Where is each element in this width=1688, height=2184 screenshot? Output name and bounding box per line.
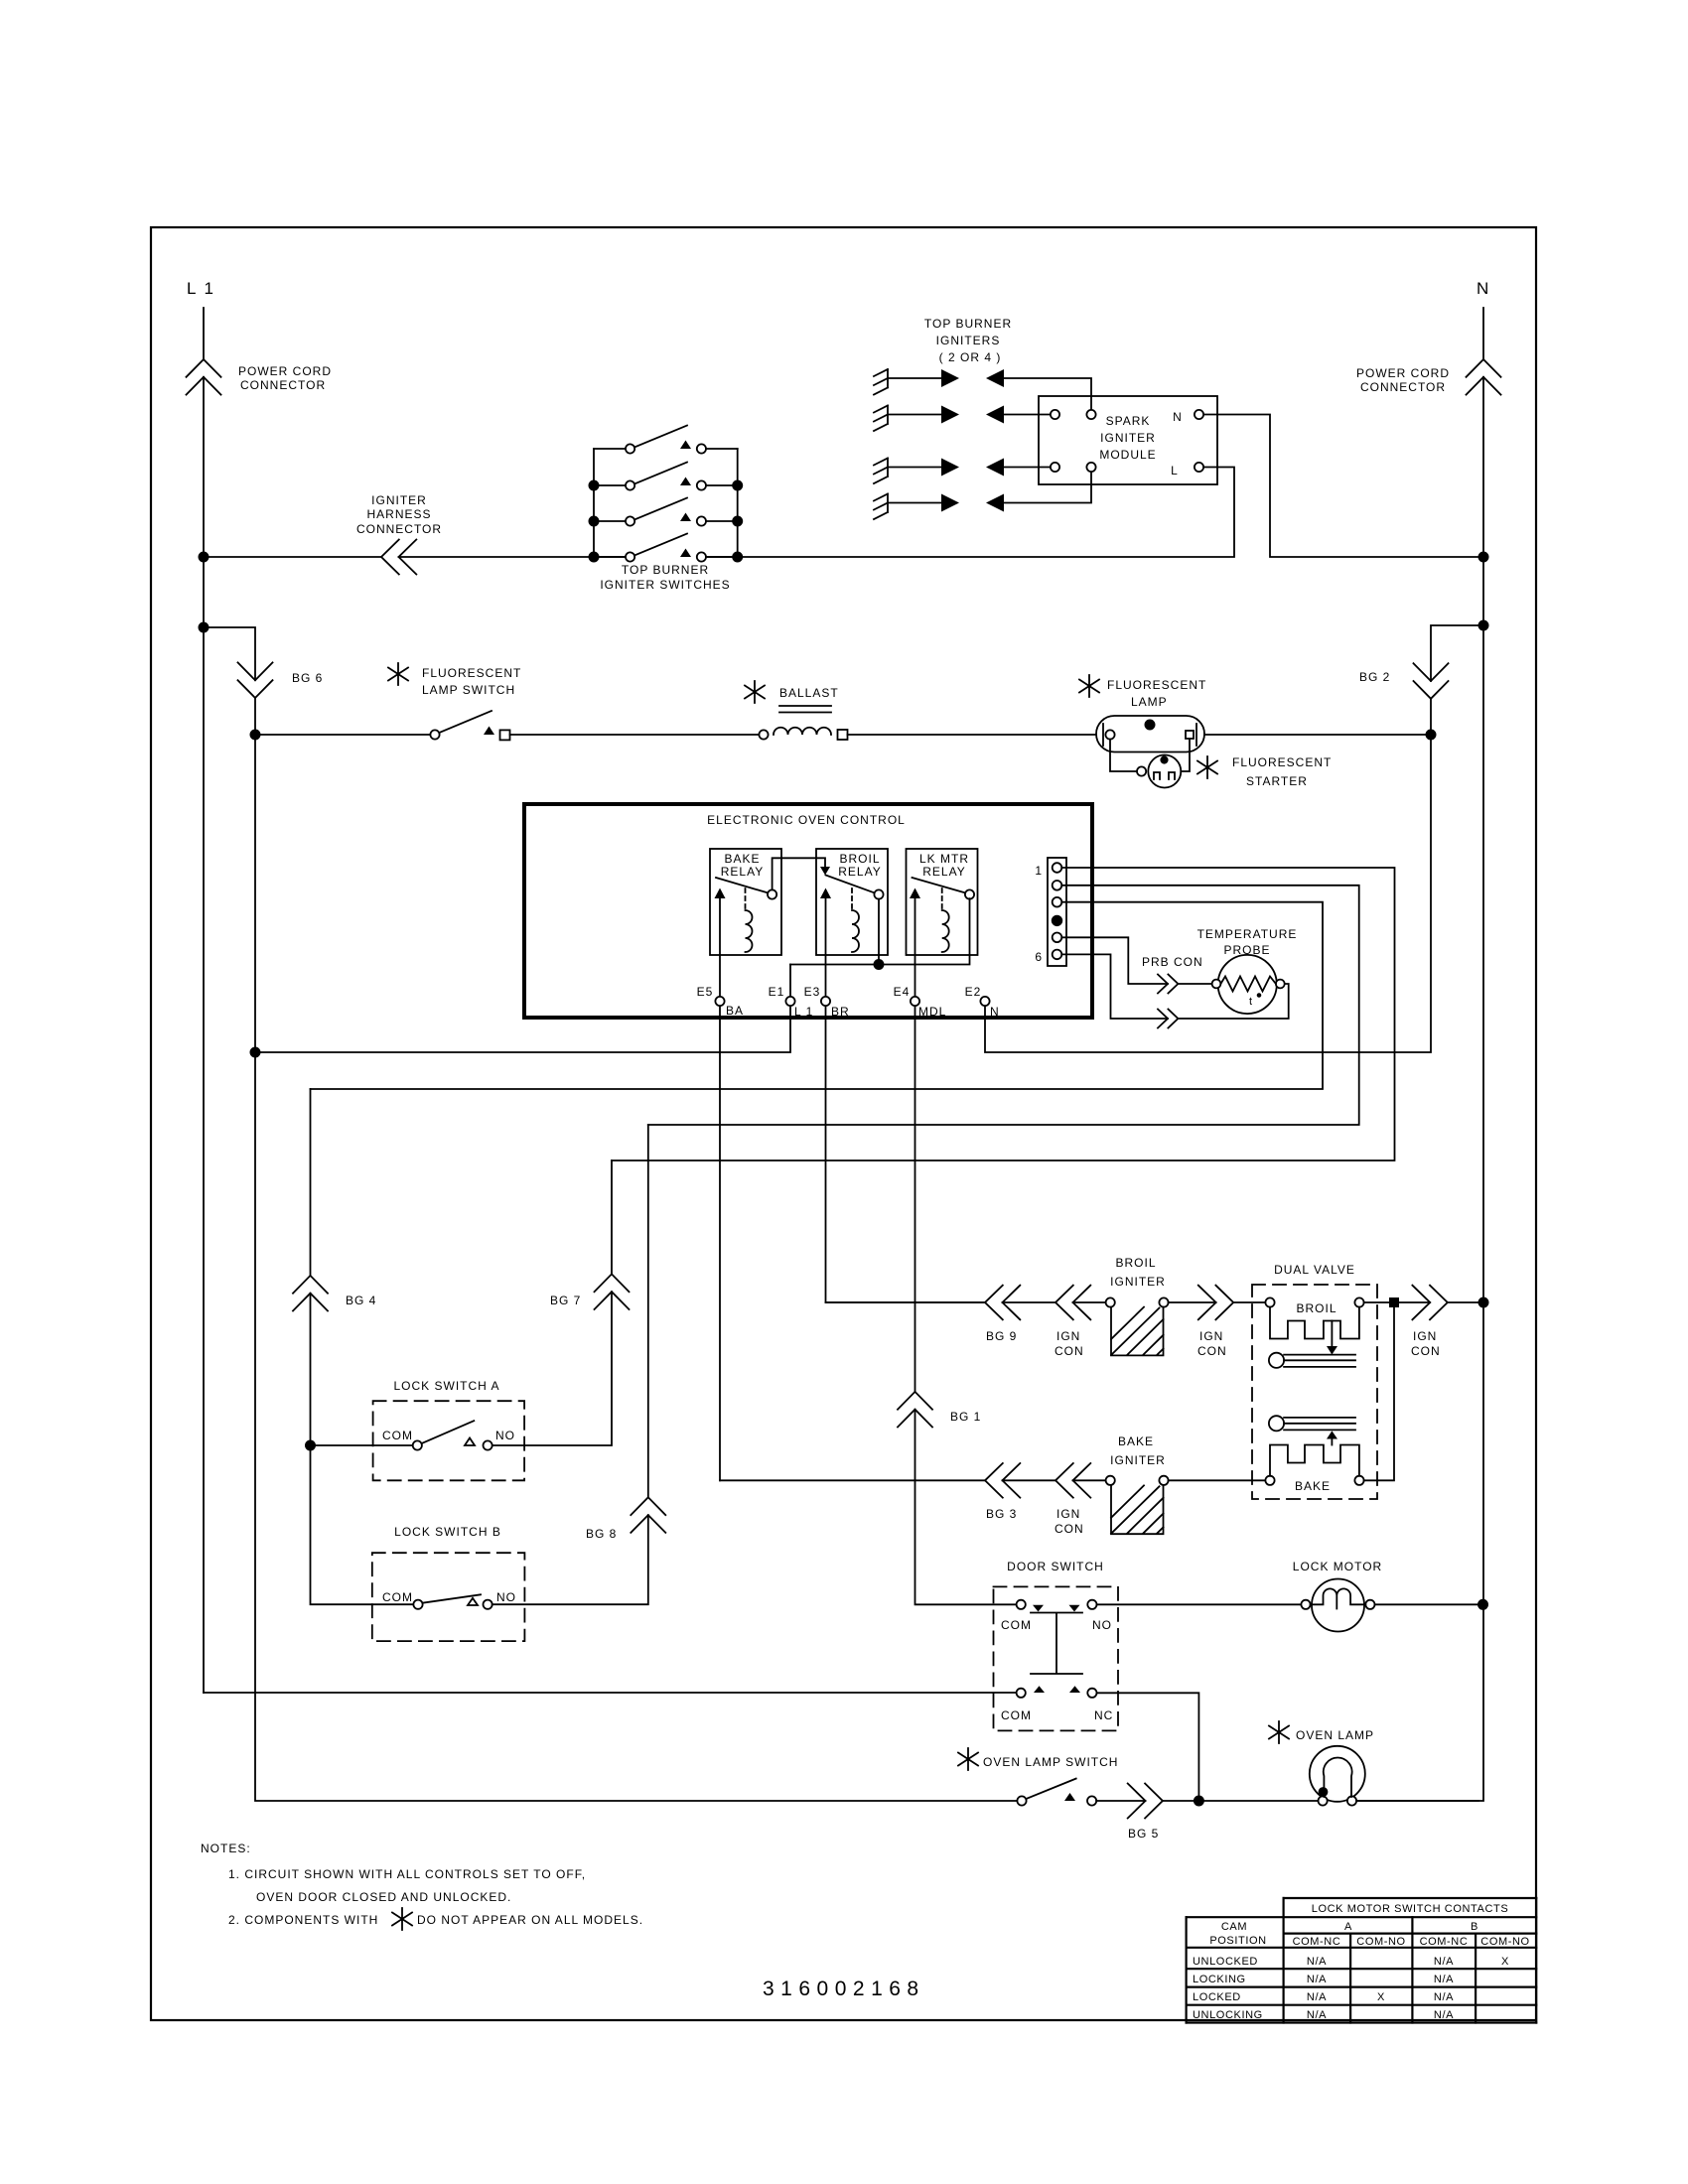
svg-text:CON: CON [1197, 1344, 1227, 1358]
svg-text:LOCK SWITCH B: LOCK SWITCH B [394, 1525, 501, 1539]
BG 1 connector chevrons [898, 1392, 932, 1428]
junction square valve outputs [1389, 1297, 1399, 1307]
spark igniter module U1 [1039, 396, 1217, 484]
svg-text:316002168: 316002168 [763, 1978, 925, 2000]
wire L1 drop [203, 308, 205, 1693]
wire BG5 to oven lamp [1163, 1800, 1319, 1802]
svg-text:LK MTR: LK MTR [919, 852, 969, 866]
junction dot switch bank [733, 552, 742, 561]
igniter harness connector chevrons [381, 540, 416, 575]
svg-text:TOP BURNER: TOP BURNER [622, 563, 709, 577]
lock switch A contacts [315, 1444, 413, 1446]
junction dot relay common [874, 960, 883, 969]
pin 3 [1053, 897, 1062, 907]
svg-text:CON: CON [1055, 1344, 1084, 1358]
svg-text:COM-NO: COM-NO [1480, 1936, 1529, 1948]
svg-text:BG 1: BG 1 [950, 1410, 981, 1424]
svg-text:LOCK SWITCH A: LOCK SWITCH A [393, 1379, 499, 1393]
svg-text:N: N [1173, 410, 1183, 424]
svg-text:N: N [1477, 279, 1490, 298]
wire to probe left pin [1178, 983, 1211, 985]
door switch actuator link [1031, 1613, 1082, 1675]
svg-text:ELECTRONIC OVEN CONTROL: ELECTRONIC OVEN CONTROL [707, 813, 906, 827]
wire BG9 to IGN CON [1003, 1301, 1056, 1303]
svg-text:E3: E3 [804, 985, 821, 999]
svg-text:L 1: L 1 [187, 279, 215, 298]
svg-text:1. CIRCUIT SHOWN WITH ALL CONT: 1. CIRCUIT SHOWN WITH ALL CONTROLS SET T… [228, 1867, 586, 1881]
door switch upper pole NO [1087, 1600, 1096, 1609]
wire bake igniter to valve [1169, 1479, 1266, 1481]
svg-text:BG 4: BG 4 [346, 1294, 376, 1307]
svg-text:BROIL: BROIL [1115, 1256, 1156, 1270]
top burner igniter electrode 1 [874, 369, 888, 395]
svg-text:6: 6 [1035, 950, 1043, 964]
svg-text:N/A: N/A [1434, 2009, 1454, 2021]
junction dot switch bank [733, 516, 742, 525]
wire L1 to BG6 branch [204, 627, 1017, 1801]
svg-text:LAMP: LAMP [1131, 695, 1168, 709]
svg-text:BROIL: BROIL [839, 852, 880, 866]
svg-text:CONNECTOR: CONNECTOR [240, 378, 326, 392]
junction dot N bus / valve return [1478, 1297, 1487, 1306]
svg-text:1: 1 [1035, 864, 1043, 878]
top burner igniter switch row 2 [594, 484, 738, 486]
wire to bake igniter [1073, 1479, 1106, 1481]
svg-text:OVEN DOOR CLOSED AND UNLOCKED.: OVEN DOOR CLOSED AND UNLOCKED. [256, 1890, 511, 1904]
fluorescent lamp switch S1 [430, 730, 439, 739]
svg-text:IGNITER: IGNITER [1110, 1275, 1166, 1289]
oven lamp DS2 [1269, 1721, 1289, 1743]
wire L1 bus [204, 556, 626, 558]
svg-text:2. COMPONENTS WITH: 2. COMPONENTS WITH [228, 1913, 378, 1927]
terminal E4 [911, 997, 919, 1006]
wire N bus BG2 branch [1431, 625, 1478, 730]
svg-text:N/A: N/A [1434, 1991, 1454, 2003]
border frame [151, 227, 1536, 2020]
wire lamp line left [255, 734, 430, 736]
pin 2 [1053, 881, 1062, 890]
wire broil igniter to IGN CON [1169, 1301, 1216, 1303]
wire switch to BG5 [1096, 1800, 1145, 1802]
terminal E1 [785, 997, 794, 1006]
svg-text:NC: NC [1094, 1708, 1113, 1722]
svg-text:BG 8: BG 8 [586, 1527, 617, 1541]
IGN CON chevrons (broil igniter in) [1055, 1286, 1090, 1320]
PRB CON chevrons (pin6 line) [1158, 1010, 1178, 1028]
top burner igniter switches bank [594, 449, 738, 557]
svg-text:COM: COM [1001, 1618, 1032, 1632]
top burner igniter electrode 4 [874, 494, 888, 520]
junction dot switch bank [589, 516, 598, 525]
wire oven lamp to N bus [1356, 1800, 1478, 1802]
svg-text:TOP BURNER: TOP BURNER [924, 317, 1012, 331]
svg-text:DUAL VALVE: DUAL VALVE [1274, 1263, 1355, 1277]
wire BG3 to IGN CON [1003, 1479, 1056, 1481]
door switch dashed enclosure [994, 1586, 1119, 1730]
svg-text:IGN: IGN [1056, 1329, 1080, 1343]
wire switch to ballast [510, 734, 760, 736]
svg-text:BROIL: BROIL [1296, 1301, 1336, 1315]
svg-text:E4: E4 [894, 985, 911, 999]
svg-text:IGNITER: IGNITER [1110, 1453, 1166, 1467]
svg-text:LOCK MOTOR: LOCK MOTOR [1293, 1560, 1382, 1573]
junction dot lock switch A feed [306, 1440, 315, 1449]
svg-text:N/A: N/A [1434, 1956, 1454, 1968]
svg-text:IGNITERS: IGNITERS [936, 334, 1001, 347]
lock motor switch contacts table [1187, 1898, 1537, 2023]
svg-text:E2: E2 [965, 985, 982, 999]
wire bake relay contact to broil relay pivot [773, 858, 825, 889]
wire bake igniter row [720, 1479, 985, 1481]
wire lock switch B NO to BG8 [492, 1125, 648, 1604]
oven lamp switch S2 [958, 1748, 978, 1770]
svg-text:POWER CORD: POWER CORD [1356, 366, 1450, 380]
lock switch B dashed enclosure [372, 1553, 525, 1641]
junction dot E1 / L1 branch [250, 1047, 259, 1056]
svg-text:IGNITER: IGNITER [371, 493, 427, 507]
svg-text:DO NOT APPEAR ON ALL MODELS.: DO NOT APPEAR ON ALL MODELS. [417, 1913, 643, 1927]
svg-text:UNLOCKED: UNLOCKED [1193, 1956, 1258, 1968]
ballast L1 [745, 681, 765, 703]
wire bus to spark module L [706, 468, 1234, 558]
wire broil relay contact down [878, 899, 880, 965]
wire pin 1 to BG7 net [612, 868, 1395, 1160]
fluorescent lamp DS1 [1079, 675, 1099, 697]
svg-text:N/A: N/A [1307, 1974, 1327, 1985]
svg-text:LAMP SWITCH: LAMP SWITCH [422, 683, 515, 697]
svg-text:E5: E5 [697, 985, 714, 999]
svg-text:BAKE: BAKE [724, 852, 760, 866]
BG 6 connector chevrons [238, 662, 273, 698]
broil valve actuator arrow [1331, 1321, 1333, 1347]
door switch lower pole COM [1017, 1689, 1026, 1698]
svg-text:CONNECTOR: CONNECTOR [1360, 380, 1446, 394]
svg-text:CON: CON [1055, 1522, 1084, 1536]
top burner igniter switch row 1 [594, 448, 738, 450]
svg-text:IGN: IGN [1056, 1507, 1080, 1521]
junction dot L1/bus [199, 552, 208, 561]
wire lock motor to N bus [1375, 1603, 1479, 1605]
svg-text:RELAY: RELAY [838, 865, 881, 879]
svg-text:LOCKING: LOCKING [1193, 1974, 1246, 1985]
svg-text:CONNECTOR: CONNECTOR [356, 522, 442, 536]
wire relay common rail (E1 to LK MTR contact) [790, 898, 970, 964]
lk mtr relay K3 [907, 849, 978, 955]
svg-text:MDL: MDL [918, 1005, 946, 1019]
wire E2 riser (N) [985, 740, 1431, 1052]
IGN CON chevrons (broil igniter out) [1198, 1286, 1233, 1320]
wire igniter row 1 to module [1004, 378, 1091, 410]
svg-text:CAM: CAM [1221, 1921, 1247, 1933]
svg-text:NO: NO [495, 1429, 515, 1442]
module pin circles [1051, 410, 1059, 419]
wire door switch NO to lock motor [1097, 1603, 1302, 1605]
svg-text:L 1: L 1 [794, 1005, 813, 1019]
wire door switch NC drop to oven lamp line [1097, 1693, 1199, 1796]
wire E1 riser [260, 965, 790, 1053]
svg-text:COM: COM [382, 1590, 413, 1604]
svg-text:UNLOCKING: UNLOCKING [1193, 2009, 1263, 2021]
svg-text:BAKE: BAKE [1295, 1479, 1331, 1493]
IGN CON chevrons (valve out) [1412, 1286, 1447, 1320]
wire E5 riser (BA) [719, 898, 721, 1480]
PRB CON chevrons (pin5 line) [1158, 975, 1178, 994]
svg-text:BA: BA [726, 1004, 744, 1018]
lock switch A dashed enclosure [373, 1401, 524, 1480]
svg-text:BAKE: BAKE [1118, 1434, 1154, 1448]
svg-text:L: L [1171, 464, 1179, 478]
svg-text:( 2 OR 4 ): ( 2 OR 4 ) [939, 350, 1002, 364]
wire E4 riser (MDL) [915, 898, 1017, 1604]
BG 7 connector chevrons [595, 1274, 630, 1309]
svg-text:BG 5: BG 5 [1128, 1827, 1159, 1841]
svg-text:PRB CON: PRB CON [1142, 955, 1203, 969]
svg-text:N/A: N/A [1307, 2009, 1327, 2021]
junction dot N bus top [1478, 552, 1487, 561]
wire to dual valve broil coil [1233, 1301, 1265, 1303]
svg-text:NO: NO [496, 1590, 516, 1604]
top burner igniter switch row 4 [594, 556, 738, 558]
junction dot switch bank [589, 480, 598, 489]
svg-text:N/A: N/A [1307, 1956, 1327, 1968]
wire pin 6 to probe return [1061, 954, 1168, 1019]
wire N drop [1356, 308, 1483, 1801]
power cord connector (N) [1467, 359, 1501, 395]
svg-text:BALLAST: BALLAST [779, 686, 839, 700]
wire igniter row 4 to module [1004, 472, 1091, 502]
svg-text:FLUORESCENT: FLUORESCENT [422, 666, 521, 680]
top burner igniter switch row 3 [594, 520, 738, 522]
svg-text:BG 9: BG 9 [986, 1329, 1017, 1343]
svg-text:COM: COM [382, 1429, 413, 1442]
svg-text:LOCKED: LOCKED [1193, 1991, 1241, 2003]
svg-text:COM-NO: COM-NO [1356, 1936, 1405, 1948]
svg-text:IGN: IGN [1413, 1329, 1437, 1343]
wire broil igniter row [826, 1301, 986, 1303]
svg-text:BG 7: BG 7 [550, 1294, 581, 1307]
top burner igniter electrode 3 [874, 459, 888, 484]
svg-text:LOCK MOTOR SWITCH CONTACTS: LOCK MOTOR SWITCH CONTACTS [1312, 1903, 1509, 1915]
svg-text:BG 2: BG 2 [1359, 670, 1390, 684]
broil burner outlet [1269, 1353, 1284, 1368]
bake burner outlet [1269, 1416, 1284, 1431]
IGN CON chevrons (bake igniter in) [1055, 1463, 1090, 1498]
top burner igniter electrode 2 [874, 406, 888, 432]
wire BG4 vertical (pin3 net to lock switch A) [311, 1089, 414, 1604]
svg-text:N/A: N/A [1434, 1974, 1454, 1985]
svg-text:RELAY: RELAY [922, 865, 965, 879]
wire lamp to BG2 vertical [1204, 734, 1426, 736]
BG 3 connector chevrons [985, 1463, 1020, 1498]
svg-text:BR: BR [831, 1005, 850, 1019]
svg-text:NOTES:: NOTES: [201, 1842, 251, 1855]
svg-text:N: N [990, 1005, 1000, 1019]
wire pin 3 to BG4 net [311, 902, 1324, 1089]
svg-text:E1: E1 [769, 985, 785, 999]
junction dot switch bank [733, 480, 742, 489]
bake valve actuator arrow [1331, 1439, 1333, 1445]
BG 5 connector chevrons [1128, 1784, 1163, 1819]
svg-text:X: X [1501, 1956, 1509, 1968]
svg-text:N/A: N/A [1307, 1991, 1327, 2003]
BG 8 connector chevrons [631, 1497, 665, 1533]
BG 4 connector chevrons [293, 1276, 328, 1311]
junction dot NC branch / oven lamp line [1195, 1796, 1203, 1805]
pin 4 (plugged) [1053, 916, 1062, 926]
svg-text:FLUORESCENT: FLUORESCENT [1232, 755, 1332, 769]
electronic oven control box U2 [524, 804, 1092, 1018]
pin 6 [1053, 950, 1062, 960]
svg-text:B: B [1471, 1921, 1478, 1933]
svg-text:A: A [1344, 1921, 1352, 1933]
terminal E3 [821, 997, 830, 1006]
svg-text:COM-NC: COM-NC [1420, 1936, 1469, 1948]
svg-text:HARNESS: HARNESS [366, 507, 431, 521]
svg-text:t: t [1249, 996, 1253, 1008]
svg-text:OVEN LAMP: OVEN LAMP [1296, 1728, 1374, 1742]
wire to broil igniter [1073, 1301, 1106, 1303]
wire E3 riser (BR) [826, 898, 986, 1302]
dual valve dashed enclosure [1252, 1285, 1377, 1499]
junction dot fluorescent branch / lamp line [250, 730, 259, 739]
svg-text:SPARK: SPARK [1106, 414, 1151, 428]
junction dot BG2/lamp line [1426, 730, 1435, 739]
svg-text:OVEN LAMP SWITCH: OVEN LAMP SWITCH [983, 1755, 1118, 1769]
svg-text:CON: CON [1411, 1344, 1441, 1358]
wire L1 to door switch lower COM [204, 1692, 1017, 1694]
junction dot L1/BG6 branch [199, 622, 208, 631]
svg-text:TEMPERATURE: TEMPERATURE [1197, 927, 1298, 941]
svg-text:BG 3: BG 3 [986, 1507, 1017, 1521]
power cord connector (L1) [187, 359, 221, 395]
pin 1 [1053, 863, 1062, 873]
wire BG7 vertical (lock switch A NO to pin1 net) [492, 1160, 612, 1445]
EOC connector J1 [1048, 858, 1066, 966]
svg-text:BG 6: BG 6 [292, 671, 323, 685]
bake relay K1 [710, 849, 781, 955]
svg-text:RELAY: RELAY [721, 865, 764, 879]
wire igniter row 3 to module [1004, 467, 1051, 469]
junction dot N bus / BG2 [1478, 620, 1487, 629]
svg-text:IGN: IGN [1199, 1329, 1223, 1343]
wire pin 2 to BG8 net [648, 886, 1359, 1125]
svg-text:POWER CORD: POWER CORD [238, 364, 332, 378]
wire spark module N to N bus [1203, 415, 1478, 558]
svg-text:MODULE: MODULE [1099, 448, 1156, 462]
fluorescent starter [1197, 756, 1217, 778]
door switch lower pole NC [1087, 1689, 1096, 1698]
wire probe return [1178, 984, 1288, 1019]
wire igniter row 2 to module [1004, 414, 1051, 416]
svg-text:FLUORESCENT: FLUORESCENT [1107, 678, 1206, 692]
svg-text:COM-NC: COM-NC [1293, 1936, 1341, 1948]
junction dot switch bank [589, 552, 598, 561]
svg-text:COM: COM [1001, 1708, 1032, 1722]
BG 2 connector chevrons [1414, 663, 1449, 699]
wire pin 5 to probe [1061, 937, 1168, 984]
wire ballast to fluorescent lamp [848, 734, 1097, 736]
door switch upper pole COM [1017, 1600, 1026, 1609]
svg-text:NO: NO [1092, 1618, 1112, 1632]
svg-text:POSITION: POSITION [1209, 1935, 1266, 1947]
svg-text:IGNITER SWITCHES: IGNITER SWITCHES [600, 578, 730, 592]
wire broil valve to junction [1364, 1301, 1479, 1303]
svg-text:STARTER: STARTER [1246, 774, 1308, 788]
junction dot N bus / lock motor [1478, 1600, 1487, 1609]
pin 5 [1053, 933, 1062, 943]
terminal E2 [980, 997, 989, 1006]
svg-text:IGNITER: IGNITER [1100, 431, 1156, 445]
svg-text:X: X [1377, 1991, 1385, 2003]
broil relay K2 [816, 849, 888, 955]
terminal E5 [715, 997, 724, 1006]
BG 9 connector chevrons [985, 1286, 1020, 1320]
wire bake valve return to junction [1364, 1307, 1394, 1480]
svg-text:DOOR SWITCH: DOOR SWITCH [1007, 1560, 1104, 1573]
